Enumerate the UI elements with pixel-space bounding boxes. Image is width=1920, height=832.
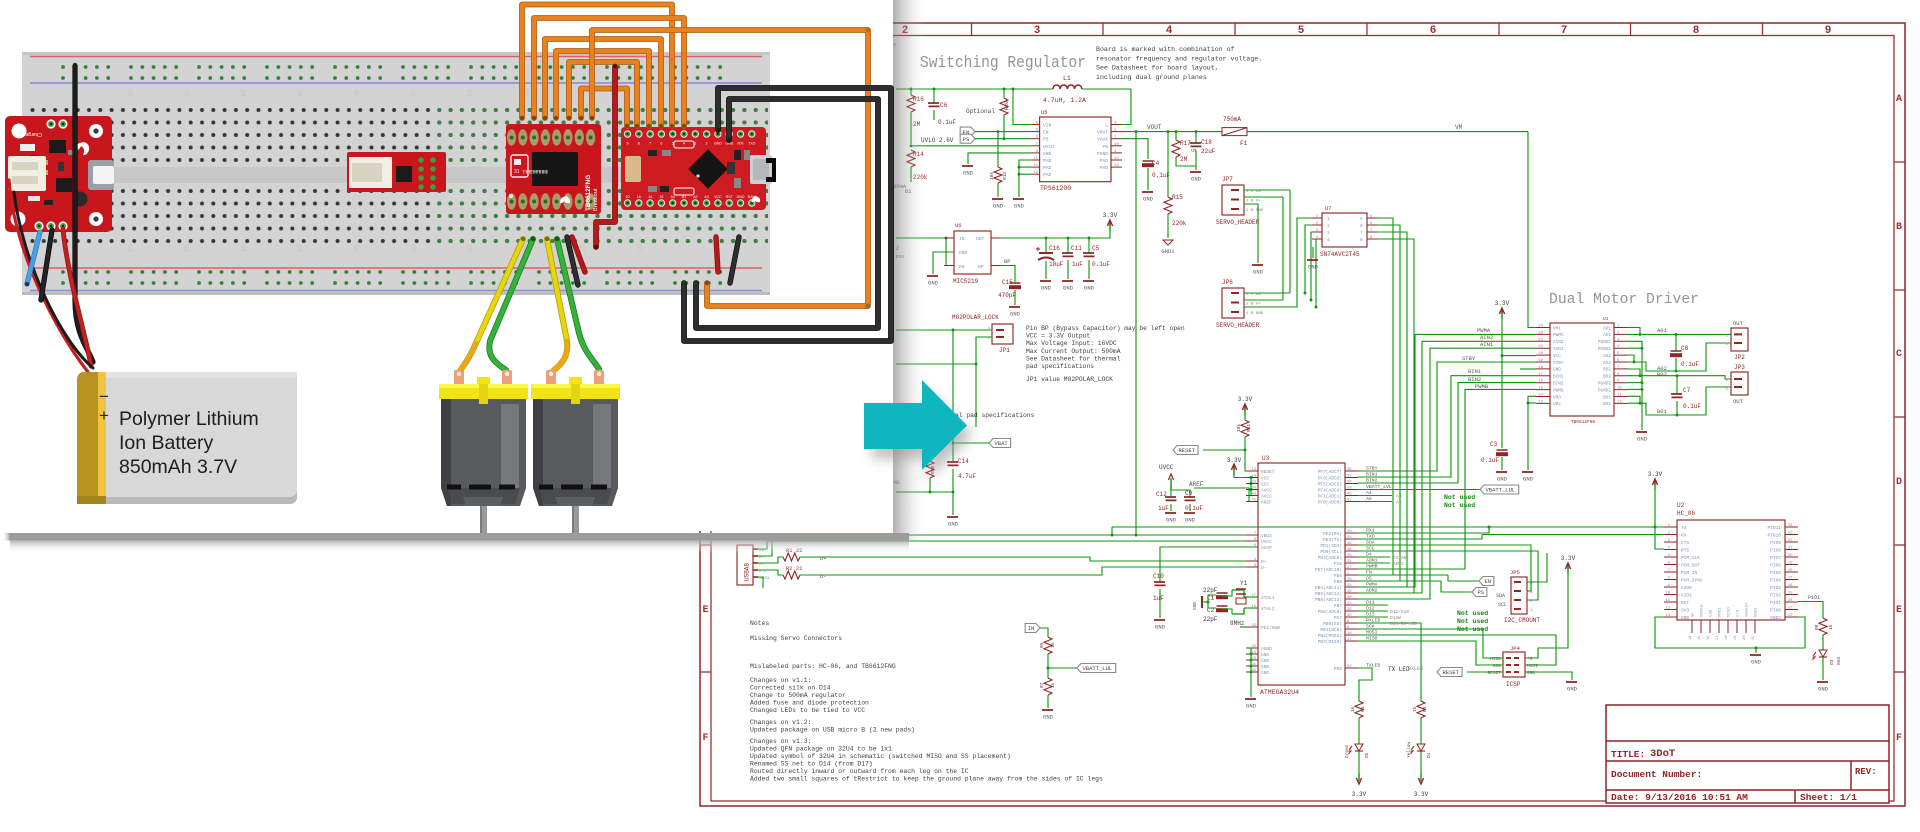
svg-text:VBUS1: VBUS1 (759, 577, 770, 581)
resistor R12 (989, 132, 1008, 197)
svg-text:BIN2: BIN2 (1366, 478, 1378, 484)
svg-text:GND: GND (993, 203, 1004, 210)
svg-text:19: 19 (1347, 542, 1352, 546)
svg-text:GND: GND (1246, 703, 1257, 710)
svg-text:FB: FB (1102, 144, 1108, 150)
svg-text:15: 15 (1538, 387, 1543, 391)
label Not used (1444, 494, 1475, 509)
svg-text:45: 45 (241, 89, 248, 97)
svg-text:1uF: 1uF (1072, 261, 1083, 268)
svg-text:R8: R8 (1814, 624, 1820, 630)
svg-text:GND: GND (1084, 285, 1095, 292)
svg-text:A1: A1 (682, 195, 686, 199)
svg-text:C11: C11 (1071, 245, 1082, 252)
left frame fragments (893, 43, 904, 486)
svg-text:RESET: RESET (1179, 447, 1196, 454)
svg-text:7: 7 (649, 142, 651, 146)
svg-text:PC7: PC7 (1334, 615, 1342, 621)
svg-text:E: E (1896, 605, 1902, 616)
svg-text:AO1: AO1 (1603, 333, 1611, 338)
fuse F1 750mA (1222, 116, 1248, 147)
svg-text:28: 28 (1347, 584, 1352, 588)
svg-text:GND: GND (1166, 517, 1177, 524)
svg-text:R17: R17 (1180, 140, 1191, 147)
svg-text:AO2: AO2 (1603, 361, 1611, 366)
svg-text:470pF: 470pF (998, 292, 1016, 299)
svg-text:RTS: RTS (1681, 548, 1689, 554)
svg-text:Updated symbol of 32U4 in sche: Updated symbol of 32U4 in schematic (swi… (750, 753, 1011, 760)
svg-text:PF6(ADC6): PF6(ADC6) (1318, 476, 1342, 482)
svg-text:10uF: 10uF (1049, 261, 1064, 268)
wire VBUS long (758, 541, 1246, 549)
svg-text:U2: U2 (1677, 502, 1685, 509)
svg-text:PWMA: PWMA (1477, 327, 1491, 334)
svg-text:+5: +5 (1527, 656, 1533, 662)
svg-text:40: 40 (1347, 493, 1352, 497)
svg-text:29: 29 (1347, 578, 1352, 582)
svg-text:Not used: Not used (1444, 502, 1475, 509)
svg-text:R20: R20 (1004, 101, 1010, 110)
svg-text:BIN2: BIN2 (1553, 382, 1564, 387)
wire AREF (1194, 488, 1258, 502)
wire D4 stub (1358, 556, 1390, 558)
wire PGND1 stubs (1628, 341, 1642, 348)
wire AIN2 net (1358, 341, 1536, 593)
svg-text:PIO8: PIO8 (1770, 548, 1781, 554)
svg-text:F: F (702, 733, 708, 744)
power 3.3V (1238, 396, 1253, 415)
svg-text:I2C_CMOUNT: I2C_CMOUNT (1504, 617, 1540, 624)
svg-text:BO2: BO2 (1603, 375, 1611, 380)
svg-text:Document Number:: Document Number: (1611, 769, 1702, 780)
wire PAD pins (1019, 160, 1032, 197)
svg-text:PD1(SDA): PD1(SDA) (1320, 543, 1342, 549)
wire SCL net (1358, 551, 1538, 600)
svg-text:Max Voltage Input: 16VDC: Max Voltage Input: 16VDC (1026, 340, 1117, 347)
jumper pair A black (567, 237, 578, 285)
svg-text:VAUX: VAUX (1097, 137, 1108, 143)
svg-text:C15: C15 (1002, 279, 1013, 286)
arrow shadow (872, 390, 973, 480)
capacitor C7 (1671, 374, 1701, 416)
motor wire yellow 2 (547, 239, 567, 371)
svg-text:D4⁄A6: D4⁄A6 (1393, 555, 1407, 561)
svg-text:12: 12 (1347, 602, 1352, 606)
wire RX long (1482, 534, 1664, 536)
breadboard power rail holes (61, 65, 722, 285)
svg-text:CLK: CLK (1737, 609, 1741, 617)
svg-text:5: 5 (1191, 148, 1198, 152)
svg-text:32: 32 (1788, 539, 1793, 543)
charger board SparkFun LiPo (5, 116, 114, 232)
svg-text:C5: C5 (1092, 245, 1100, 252)
svg-text:Mislabeled parts: HC-06, and T: Mislabeled parts: HC-06, and TB6612FNG (750, 663, 896, 670)
wire gnd bus (896, 491, 953, 493)
DC motor 2 (531, 370, 620, 538)
svg-text:PS: PS (1043, 137, 1049, 143)
svg-text:A4: A4 (1396, 494, 1402, 500)
wire vcc bus (1234, 475, 1251, 478)
svg-text:R6: R6 (1039, 642, 1045, 648)
svg-text:PB1(SCK): PB1(SCK) (1320, 627, 1342, 633)
svg-text:AIO1: AIO1 (1681, 593, 1692, 599)
svg-text:STBY: STBY (1553, 361, 1564, 366)
wire U7 out 5 (1377, 218, 1448, 575)
svg-text:GND: GND (1681, 615, 1689, 621)
wire IN net (1040, 628, 1048, 637)
svg-text:GND: GND (948, 521, 959, 528)
wire U7 pin4 (1316, 239, 1322, 307)
ground (1501, 469, 1503, 471)
svg-text:R2 22: R2 22 (786, 565, 803, 572)
flag RESET (1173, 446, 1198, 455)
svg-text:C10: C10 (1153, 573, 1164, 580)
svg-text:TB6612FNG: TB6612FNG (1571, 419, 1596, 425)
capacitor C1 22pF (1203, 587, 1232, 602)
ground (927, 276, 939, 287)
svg-text:29: 29 (1788, 562, 1793, 566)
ground GND1 (1161, 240, 1175, 255)
wire AO1 net (1628, 328, 1640, 335)
capacitor C12 (1156, 485, 1177, 512)
svg-text:AIO0: AIO0 (1681, 585, 1692, 591)
svg-text:BIN2: BIN2 (1468, 376, 1481, 383)
svg-text:33: 33 (1251, 624, 1256, 628)
wire JP1 pin1 (896, 329, 992, 331)
svg-text:PIO6: PIO6 (1770, 563, 1781, 569)
svg-text:PD7(ADC10): PD7(ADC10) (1315, 567, 1342, 573)
svg-text:PGND1: PGND1 (1598, 340, 1612, 345)
wire BO1 net (1628, 396, 1640, 403)
svg-text:10: 10 (637, 244, 644, 252)
svg-text:11: 11 (1665, 599, 1670, 603)
wire RX1 net (1358, 527, 1489, 533)
svg-text:PWMB: PWMB (1475, 383, 1489, 390)
orange wire tips (520, 116, 709, 285)
svg-text:D+: D+ (759, 563, 763, 567)
svg-text:3.3V: 3.3V (1238, 396, 1253, 403)
jumper pair B black (730, 237, 739, 283)
svg-text:PB5(ADC12): PB5(ADC12) (1315, 591, 1342, 597)
black jumper wire B1 (684, 88, 891, 341)
svg-text:AIN2: AIN2 (1553, 340, 1564, 345)
panel edge shadow (893, 0, 927, 540)
svg-text:PB3(MISO): PB3(MISO) (1318, 639, 1342, 645)
svg-text:4: 4 (1166, 25, 1173, 37)
power 3.3V down (1352, 773, 1367, 798)
svg-text:0.1uF: 0.1uF (938, 119, 956, 126)
ground (1566, 682, 1578, 693)
wire U7 out 7 (1377, 232, 1407, 587)
black jumper wire B2 (696, 99, 878, 328)
ground (947, 517, 959, 528)
svg-text:3.3V: 3.3V (1414, 791, 1429, 798)
svg-text:JP6: JP6 (1222, 279, 1233, 286)
svg-text:22: 22 (1347, 665, 1352, 669)
ground (1307, 260, 1319, 271)
svg-text:25: 25 (1788, 592, 1793, 596)
svg-text:24: 24 (1538, 325, 1543, 329)
svg-text:L: L (1105, 123, 1108, 129)
flag EN (960, 127, 975, 136)
svg-text:19: 19 (1734, 635, 1738, 640)
wire VBAT vertical (952, 330, 954, 443)
svg-text:SCK: SCK (1493, 663, 1501, 669)
net labels right of U3 (1366, 484, 1417, 669)
svg-text:PIO11: PIO11 (1767, 525, 1781, 531)
svg-text:42: 42 (1251, 499, 1256, 503)
svg-text:VBAT: VBAT (995, 440, 1009, 447)
Pro Micro board (621, 127, 776, 210)
wire VM net (1247, 131, 1528, 133)
svg-text:AREF: AREF (1261, 500, 1272, 506)
label Not used x3 (1457, 610, 1488, 633)
svg-text:UVCC: UVCC (1159, 464, 1174, 471)
svg-text:850mAh 3.7V: 850mAh 3.7V (119, 456, 237, 478)
svg-text:13: 13 (1665, 614, 1670, 618)
svg-text:L1: L1 (1063, 75, 1071, 82)
svg-text:F: F (1896, 733, 1902, 744)
svg-text:HC_06: HC_06 (1677, 510, 1695, 517)
svg-text:2: 2 (706, 142, 708, 146)
resistor R2 22 (758, 565, 1246, 580)
svg-text:44: 44 (1251, 493, 1256, 497)
svg-text:34: 34 (1251, 481, 1256, 485)
svg-text:ADN1: ADN1 (1393, 561, 1404, 567)
wire 3.3V to ICSP (1525, 574, 1568, 658)
wire VBAT (953, 442, 989, 444)
wire TX long (1112, 526, 1664, 528)
svg-text:SCL: SCL (1498, 602, 1507, 608)
svg-text:GND1: GND1 (1755, 607, 1759, 617)
svg-text:RX: RX (1681, 533, 1687, 539)
charger small wires (27, 232, 40, 284)
wire 3.3V to VCC (1501, 319, 1503, 448)
wire servo bus 2 (1282, 197, 1284, 300)
resistor R3 (1412, 701, 1428, 744)
red wire tips (613, 64, 617, 68)
svg-text:A3: A3 (704, 195, 708, 199)
wire TX drop (1111, 527, 1113, 535)
svg-text:See Datasheet for thermal: See Datasheet for thermal (1026, 355, 1121, 362)
wire U7 out 8 (1377, 239, 1414, 593)
svg-text:GND: GND (1185, 517, 1196, 524)
svg-text:TB6612FNG: TB6612FNG (585, 175, 592, 211)
svg-text:TPS61200: TPS61200 (1040, 185, 1071, 192)
svg-text:PGND: PGND (1097, 151, 1108, 157)
svg-text:EN: EN (1043, 130, 1049, 136)
svg-text:PIO10: PIO10 (1767, 533, 1781, 539)
svg-text:PB0(SS): PB0(SS) (1323, 621, 1342, 627)
svg-text:C7: C7 (1683, 387, 1691, 394)
svg-text:11: 11 (1617, 394, 1622, 398)
svg-text:0.1uF: 0.1uF (1681, 361, 1699, 368)
svg-text:VCC = 3.3V Output: VCC = 3.3V Output (1026, 333, 1090, 340)
svg-text:3.3V: 3.3V (1648, 471, 1663, 478)
svg-text:BP: BP (978, 264, 984, 270)
svg-text:PD3(TX): PD3(TX) (1323, 537, 1342, 543)
svg-text:15: 15 (1698, 635, 1702, 640)
wire TXLED net (1358, 668, 1372, 701)
svg-text:12: 12 (1665, 607, 1670, 611)
svg-text:GND: GND (1253, 269, 1264, 276)
svg-text:Changes on v1.3:: Changes on v1.3: (750, 738, 811, 745)
svg-text:35: 35 (354, 244, 361, 252)
svg-text:23: 23 (1538, 331, 1543, 335)
wire VBUS from VM (1135, 132, 1137, 535)
note JP1 text (1026, 325, 1185, 383)
svg-text:0.1uF: 0.1uF (1092, 261, 1110, 268)
svg-text:JP1 value M02POLAR_LOCK: JP1 value M02POLAR_LOCK (1026, 376, 1113, 383)
svg-text:10: 10 (626, 195, 630, 199)
svg-text:GND: GND (1043, 151, 1052, 157)
svg-text:SDA: SDA (1496, 593, 1505, 599)
svg-text:GND: GND (959, 250, 968, 256)
DC motor 1 (439, 370, 528, 538)
resistor R18 (926, 455, 936, 492)
svg-text:Not used: Not used (1457, 618, 1488, 625)
capacitor C9 (1171, 490, 1203, 512)
ground (1184, 513, 1196, 524)
wire ADN1 stub (1358, 562, 1390, 564)
svg-text:D5: D5 (1364, 752, 1370, 758)
connector JP7 servo header (1216, 176, 1264, 226)
svg-text:18: 18 (1538, 366, 1543, 370)
svg-text:28: 28 (1788, 569, 1793, 573)
ground (1817, 682, 1829, 693)
svg-text:16: 16 (637, 195, 641, 199)
svg-text:7: 7 (1561, 25, 1568, 37)
svg-text:PB2(MOSI): PB2(MOSI) (1318, 633, 1342, 639)
svg-text:2M: 2M (1180, 156, 1188, 163)
power 3.3V jp4 (1561, 555, 1576, 574)
svg-text:Change to 500mA regulator: Change to 500mA regulator (750, 692, 846, 699)
LED D4 yellow (1406, 741, 1432, 773)
svg-text:U6: U6 (955, 222, 962, 229)
motor wire yellow 1 (460, 239, 523, 371)
label UVCC arrow (1159, 464, 1174, 490)
svg-text:VCC: VCC (1261, 482, 1269, 488)
svg-text:GND: GND (1143, 196, 1154, 203)
svg-text:RESET: RESET (1261, 469, 1275, 475)
svg-text:GND: GND (1192, 602, 1198, 610)
svg-text:GND: GND (1261, 664, 1269, 670)
svg-text:PWMB: PWMB (1553, 388, 1564, 393)
svg-text:GND: GND (1308, 264, 1319, 271)
svg-text:PB5: PB5 (1334, 579, 1342, 585)
wire VCC pin (1502, 355, 1536, 357)
wire ICSP gnd (1525, 672, 1572, 680)
svg-text:PC6: PC6 (1334, 561, 1342, 567)
svg-text:12: 12 (1033, 171, 1038, 175)
svg-text:See Datasheet for board layout: See Datasheet for board layout, (1096, 65, 1219, 72)
svg-text:B: B (1896, 222, 1902, 233)
ground (1522, 472, 1534, 483)
svg-text:Changed LEDs to be tied to VCC: Changed LEDs to be tied to VCC (750, 707, 865, 714)
resistor R8 (1814, 618, 1834, 650)
svg-text:SERVO_HEADER: SERVO_HEADER (1216, 219, 1260, 226)
svg-text:resonator frequency and regula: resonator frequency and regulator voltag… (1096, 55, 1262, 62)
svg-text:220k: 220k (1172, 220, 1187, 227)
svg-text:RST: RST (726, 195, 734, 199)
svg-text:50: 50 (185, 89, 192, 97)
wire VM vertical to motor driver (1528, 132, 1536, 328)
svg-text:B14/RX-LED: B14/RX-LED (1390, 621, 1417, 627)
svg-text:Optional: Optional (966, 108, 995, 115)
svg-text:PIO3: PIO3 (1770, 585, 1781, 591)
resistor R7 (1039, 678, 1056, 708)
ground (1245, 699, 1257, 710)
svg-text:1k: 1k (1050, 682, 1056, 688)
svg-text:XTAL1: XTAL1 (1261, 595, 1275, 601)
svg-text:15: 15 (659, 195, 663, 199)
svg-text:JP4: JP4 (1510, 645, 1521, 652)
wire GND pin stub (1520, 368, 1536, 370)
polymer lithium battery (77, 372, 297, 504)
wire MISO net (1358, 641, 1503, 665)
wire MOSI net (1358, 635, 1556, 665)
svg-text:20: 20 (1538, 352, 1543, 356)
svg-text:GND: GND (1014, 203, 1025, 210)
breadboard body (22, 52, 770, 295)
svg-text:VCC: VCC (714, 195, 722, 199)
svg-text:33: 33 (1788, 532, 1793, 536)
svg-text:B V+: B V+ (1251, 303, 1261, 307)
svg-text:GND: GND (1751, 659, 1762, 666)
capacitor C14 (947, 443, 976, 492)
svg-text:PB6(ADC13): PB6(ADC13) (1315, 597, 1342, 603)
svg-text:Renamed SS net to D14 (from D1: Renamed SS net to D14 (from D17) (750, 761, 873, 768)
LED D3 red (1812, 650, 1842, 680)
ground (1042, 710, 1054, 721)
motor wire green 2 (557, 239, 599, 369)
wire PGND2 stubs (1628, 382, 1642, 384)
svg-text:B01: B01 (1657, 408, 1668, 415)
wire PS (975, 138, 1032, 140)
svg-text:D13W: D13W (1390, 615, 1401, 621)
capacitor C15 (998, 279, 1021, 305)
svg-text:Switching Regulator: Switching Regulator (920, 54, 1086, 73)
wire U7 pin3 (1311, 232, 1322, 300)
power 3.3V motor (1495, 300, 1510, 319)
svg-text:8: 8 (1360, 237, 1363, 243)
svg-text:23: 23 (1788, 607, 1793, 611)
connector JP6 servo header (1216, 279, 1264, 329)
inductor L1 (1043, 75, 1086, 104)
svg-text:P1O1: P1O1 (1808, 595, 1820, 601)
svg-text:D12/A10: D12/A10 (1390, 609, 1409, 615)
wire RESET to ICSP (1467, 671, 1503, 673)
crystal Y1 (1230, 580, 1258, 627)
svg-text:GND: GND (1041, 285, 1052, 292)
svg-text:27: 27 (1347, 566, 1352, 570)
svg-text:D4: D4 (1426, 752, 1432, 758)
wire usb gnd up (758, 577, 763, 588)
capacitor C2 22pF (1203, 606, 1232, 623)
svg-text:PIO1: PIO1 (1770, 600, 1781, 606)
breadboard rail lines (30, 57, 762, 291)
flag VBATT_LUL 2 (1048, 667, 1077, 669)
svg-text:14: 14 (648, 195, 652, 199)
svg-text:A5: A5 (1396, 500, 1402, 506)
wire U3 gnd bus (1246, 647, 1251, 649)
svg-text:PCM_OUT: PCM_OUT (1681, 563, 1700, 569)
IC U7 SN74AVC2T45 (1312, 205, 1377, 258)
svg-text:R15: R15 (1172, 194, 1183, 201)
ground (1252, 265, 1264, 276)
svg-text:VBUSD+: VBUSD+ (1746, 602, 1750, 617)
resistor R17 (1172, 132, 1196, 166)
